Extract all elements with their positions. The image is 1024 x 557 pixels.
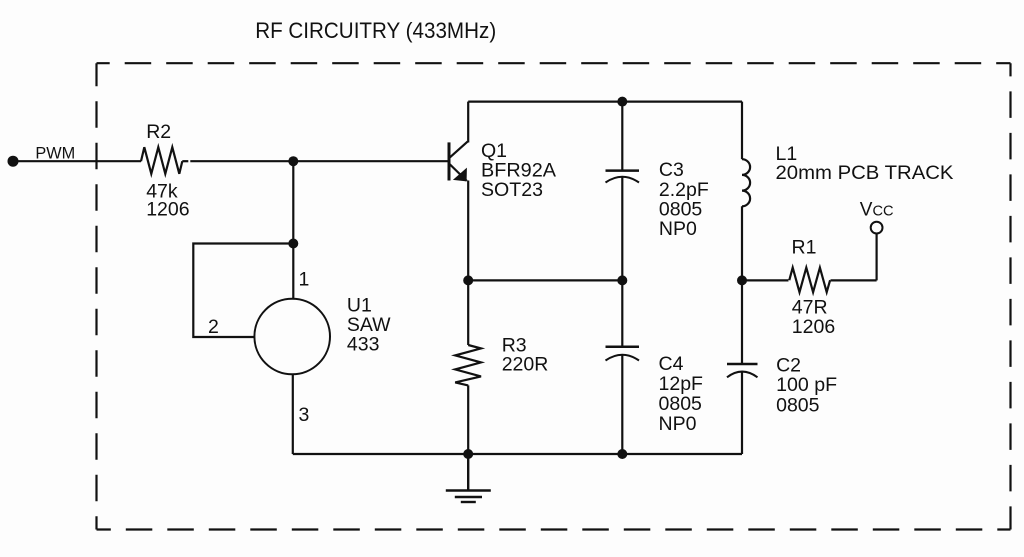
node B junction dot	[288, 239, 298, 249]
svg-text:0805: 0805	[659, 393, 703, 415]
resistor R2	[141, 147, 182, 174]
svg-text:C3: C3	[659, 159, 684, 181]
svg-text:C4: C4	[659, 353, 684, 375]
junction dot emitter node	[463, 275, 473, 285]
svg-text:NP0: NP0	[659, 218, 697, 240]
transistor Q1	[449, 142, 468, 182]
junction dot bottom at R3	[463, 449, 473, 459]
bottom ground bus wire	[293, 453, 742, 455]
svg-text:R2: R2	[146, 121, 171, 143]
wire node A down to node B	[292, 161, 294, 243]
svg-text:R1: R1	[792, 237, 817, 259]
resistor R3	[455, 280, 481, 454]
svg-text:1206: 1206	[146, 199, 189, 221]
wire Q1 collector up	[467, 102, 469, 143]
svg-text:0805: 0805	[776, 395, 820, 417]
middle wire emitter to C3/C4 node	[468, 279, 622, 281]
svg-text:1206: 1206	[792, 316, 835, 338]
PWM terminal	[8, 156, 19, 167]
svg-text:47R: 47R	[792, 296, 828, 318]
svg-text:2: 2	[208, 316, 219, 338]
svg-text:433: 433	[347, 333, 380, 355]
svg-text:220R: 220R	[502, 353, 549, 375]
svg-text:PWM: PWM	[35, 145, 75, 163]
VCC terminal circle	[871, 222, 883, 234]
capacitor C2	[727, 280, 758, 454]
svg-text:SOT23: SOT23	[481, 179, 543, 201]
top supply wire	[468, 100, 742, 102]
wire node B to U1 pin 1	[292, 244, 294, 300]
wire R1 to VCC	[875, 234, 877, 281]
wire Q1 emitter down	[467, 181, 469, 281]
capacitor C3	[606, 102, 640, 281]
svg-text:RF CIRCUITRY (433MHz): RF CIRCUITRY (433MHz)	[255, 18, 496, 43]
wire PWM to R2	[13, 160, 141, 162]
resistor R1	[742, 268, 877, 293]
junction dot C3/C4 node	[617, 275, 627, 285]
svg-text:3: 3	[299, 404, 310, 426]
junction dot L1/C2/R1 node	[737, 275, 747, 285]
wire R2 to Q1 base	[182, 160, 188, 162]
inductor L1	[742, 102, 750, 281]
junction dot bottom at C4	[617, 449, 627, 459]
svg-text:20mm PCB TRACK: 20mm PCB TRACK	[776, 162, 954, 184]
wire loop to U1 pin 2	[193, 244, 293, 338]
SAW resonator U1 circle	[254, 299, 330, 375]
svg-text:0805: 0805	[659, 199, 703, 221]
junction dot top at C3	[617, 97, 627, 107]
capacitor C4	[606, 280, 640, 454]
ground	[446, 454, 491, 502]
svg-text:1: 1	[299, 269, 310, 291]
svg-text:12pF: 12pF	[659, 373, 704, 395]
svg-text:NP0: NP0	[659, 413, 697, 435]
svg-text:100 pF: 100 pF	[776, 374, 837, 396]
svg-text:VCC: VCC	[860, 200, 894, 221]
node A junction dot	[288, 156, 298, 166]
wire U1 pin 3 down	[292, 374, 294, 455]
dashed RF boundary box	[97, 63, 1011, 529]
